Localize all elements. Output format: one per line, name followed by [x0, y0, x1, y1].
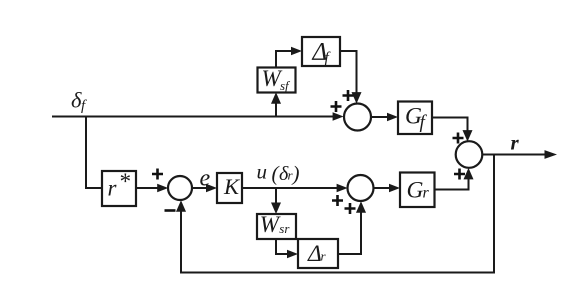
label W_sr [260, 212, 291, 237]
arrowhead into summer S1 from left [333, 112, 344, 120]
arrowhead right into summer S2 left [157, 184, 168, 192]
wire: summer S1 to G_f [371, 116, 389, 118]
wire: G_f output right and down into summer S4 top [432, 118, 468, 132]
block W_sf [258, 68, 296, 93]
summer S4 (output junction) [456, 141, 483, 168]
arrowhead right into Delta_r left [287, 250, 298, 258]
block G_f [398, 102, 432, 135]
label W_sf [262, 66, 292, 93]
wire: delta_f main horizontal line [52, 116, 335, 118]
wire: W_sr bottom to Delta_r left [276, 239, 289, 254]
block K [217, 173, 242, 203]
wire: branch down from delta_f line to r* input [86, 117, 101, 189]
svg-text:K: K [223, 174, 240, 199]
summer S3 (before G_r) [348, 175, 374, 201]
wire: summer S3 to G_r [374, 187, 391, 189]
wire: Delta_r right up into summer S3 bottom [338, 212, 361, 255]
svg-text:e: e [200, 166, 211, 192]
wire: G_r output right and up into summer S4 bottom [435, 178, 469, 190]
minus sign at S2 bottom input [165, 209, 176, 212]
wire: W_sf top to Delta_f left [276, 51, 293, 68]
arrowhead up into summer S4 bottom [464, 168, 474, 180]
arrowhead down into W_sr top [271, 203, 281, 215]
block Delta_f [302, 37, 340, 66]
svg-text:G: G [407, 178, 424, 204]
wire: K to summer S3 [242, 187, 338, 189]
plus sign at S4 top input [453, 133, 464, 144]
svg-text:r: r [511, 131, 520, 155]
arrowhead right into G_r left [389, 184, 400, 192]
label Delta_f [312, 39, 332, 67]
wire: branch down into W_sr top [275, 188, 277, 205]
svg-text:r: r [423, 185, 430, 202]
svg-text:): ) [292, 162, 300, 186]
svg-text:r: r [108, 176, 118, 201]
label Delta_r [307, 241, 327, 267]
block Delta_r [298, 239, 338, 268]
plus sign at S1 top input [343, 90, 354, 101]
wire: summer S2 to K [192, 187, 208, 189]
block r* [102, 171, 136, 206]
arrowhead up into summer S3 bottom [356, 201, 366, 213]
plus sign at S2 left input [152, 169, 163, 180]
label G_r [407, 178, 430, 204]
summer S1 (top, feedforward) [344, 104, 371, 131]
block W_sr [257, 214, 296, 239]
plus sign at S1 left input [331, 101, 342, 112]
label G_f [405, 104, 428, 134]
arrowhead down into summer S4 top [463, 130, 473, 142]
label r* [108, 169, 131, 201]
svg-text:u: u [257, 160, 268, 184]
label delta_f (input) [71, 88, 87, 115]
wire: r* to summer S2 [136, 187, 159, 189]
plus sign at S3 bottom input [345, 203, 356, 214]
wire: feedback from output down, across bottom, up into summer S2 [181, 155, 494, 273]
block G_r [400, 173, 435, 208]
arrowhead right into G_f left [387, 113, 398, 121]
arrowhead up into W_sf bottom [271, 92, 281, 104]
arrowhead down into summer S1 top [352, 92, 362, 104]
wire: vertical into W_sf bottom [275, 102, 277, 117]
plus sign at S3 left input [332, 195, 343, 206]
svg-text:W: W [260, 212, 281, 237]
arrowhead of r output [545, 150, 558, 159]
label u(delta_r) [257, 160, 300, 186]
arrowhead right into K left [206, 184, 217, 192]
wire: Delta_f right down into summer S1 top [340, 51, 357, 94]
svg-text:sr: sr [279, 221, 290, 236]
summer S2 (error junction) [168, 176, 192, 200]
arrowhead right into Delta_f left [291, 47, 302, 55]
plus sign at S4 bottom input [454, 169, 465, 180]
wire: summer S4 output to r arrow [482, 154, 545, 156]
arrowhead right into summer S3 left [337, 184, 348, 192]
svg-text:*: * [119, 169, 131, 194]
arrowhead up into summer S2 bottom (feedback) [176, 200, 186, 212]
